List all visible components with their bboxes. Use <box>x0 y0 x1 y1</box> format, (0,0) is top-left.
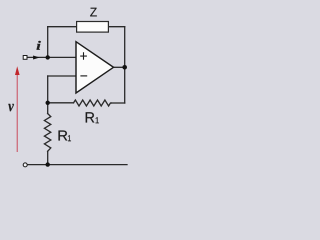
wire: op-amp output stub <box>114 66 125 68</box>
node A junction dot <box>46 55 50 59</box>
wire: node B to resistor R1 horizontal left stub <box>48 102 74 104</box>
wire: input terminal to op-amp + input (node A row) <box>27 56 76 58</box>
wire: bottom ground rail <box>28 164 128 166</box>
voltage arrow v (red) <box>15 66 20 152</box>
impedance Z box <box>77 22 109 33</box>
label v <box>8 104 14 111</box>
wire: R1 bottom to ground rail <box>47 151 49 164</box>
op-amp + input symbol <box>80 52 87 60</box>
wire: node B vertical from - input <box>47 76 49 103</box>
label i <box>37 41 41 50</box>
wire: node A up to Z row <box>47 27 49 58</box>
label Z <box>90 8 97 17</box>
resistor R1 (horizontal feedback) <box>74 100 112 106</box>
output node junction dot <box>122 65 127 70</box>
ground rail junction dot <box>46 162 50 166</box>
wire: inverting input row <box>48 75 76 77</box>
label R1 subscript 1 <box>96 117 99 123</box>
wire: Z row right segment <box>108 26 124 28</box>
node B junction dot <box>46 101 50 105</box>
wire: node B down to vertical R1 <box>47 103 49 114</box>
op-amp U1 <box>76 42 114 93</box>
wire: R1 right stub to feedback line <box>111 102 124 104</box>
input terminal (square) <box>23 56 27 60</box>
wire: Z row left segment <box>48 26 77 28</box>
bottom terminal (circle) <box>23 163 27 167</box>
label R1 (vertical resistor) <box>59 131 68 141</box>
wire: right vertical (output feedback) <box>124 27 126 103</box>
current arrow on input wire <box>33 56 40 60</box>
label R1 (horizontal resistor) <box>86 112 95 122</box>
label R1 subscript 1 <box>68 135 71 141</box>
op-amp - input symbol <box>80 75 87 77</box>
resistor R1 (vertical to ground) <box>44 114 50 152</box>
